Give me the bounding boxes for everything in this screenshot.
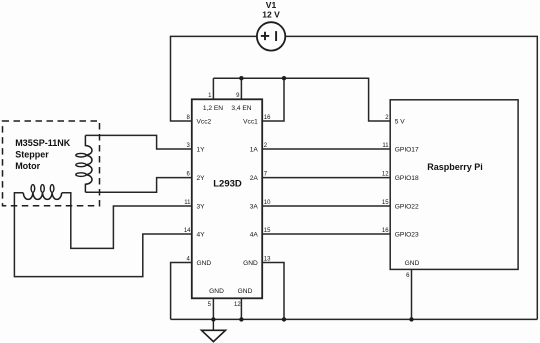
svg-text:15: 15 xyxy=(382,200,389,206)
wire L293D pin 9 riser to EN rail xyxy=(240,78,242,99)
inductor coil L2 (horizontal winding) xyxy=(23,185,61,200)
svg-text:M35SP-11NK: M35SP-11NK xyxy=(15,138,71,148)
svg-text:1,2 EN: 1,2 EN xyxy=(203,105,223,112)
svg-text:12: 12 xyxy=(382,172,389,178)
wire L293D pin 16 Vcc1 riser to EN rail xyxy=(262,78,284,121)
svg-text:12: 12 xyxy=(234,302,241,308)
voltage source V1 xyxy=(257,22,285,50)
node pin9/EN rail xyxy=(239,76,243,80)
svg-text:6: 6 xyxy=(186,172,190,178)
svg-text:GND: GND xyxy=(209,288,224,295)
wire 4A to GPIO23 xyxy=(262,233,390,235)
svg-text:4Y: 4Y xyxy=(197,232,206,239)
svg-text:12 V: 12 V xyxy=(262,10,280,20)
op-amp U1: L293D IC body xyxy=(192,99,262,298)
wire top rail left: V1 plus to Vcc2 pin 8 xyxy=(171,36,257,121)
wire coil L1 bottom to 2Y pin 6 xyxy=(85,178,191,193)
svg-text:3: 3 xyxy=(186,143,190,149)
svg-text:1: 1 xyxy=(208,93,212,99)
svg-text:Vcc2: Vcc2 xyxy=(197,119,212,126)
Raspberry Pi body xyxy=(390,100,518,270)
wire L293D pin 12 GND to rail xyxy=(240,298,242,319)
svg-text:13: 13 xyxy=(264,257,271,263)
svg-text:16: 16 xyxy=(382,228,389,234)
svg-text:Raspberry Pi: Raspberry Pi xyxy=(427,162,483,172)
svg-text:8: 8 xyxy=(186,115,190,121)
svg-text:GPIO17: GPIO17 xyxy=(395,147,419,154)
svg-text:10: 10 xyxy=(264,200,271,206)
wire coil L2 right to 3Y pin 11 xyxy=(62,193,192,249)
wire L293D pin 5 GND to rail xyxy=(212,298,214,319)
node RPi GND/rail xyxy=(409,317,413,321)
svg-text:GND: GND xyxy=(405,260,420,267)
svg-text:4: 4 xyxy=(186,257,190,263)
wire bottom ground rail xyxy=(171,318,538,320)
wire coil L1 top to 1Y pin 3 xyxy=(85,135,191,149)
wire Raspberry Pi pin 6 GND to rail xyxy=(411,269,413,319)
node pin13/rail xyxy=(282,317,286,321)
svg-text:Vcc1: Vcc1 xyxy=(243,119,258,126)
wire EN rail to Raspberry Pi 5V pin 2 xyxy=(213,78,390,121)
svg-text:2A: 2A xyxy=(250,175,259,182)
svg-text:9: 9 xyxy=(236,93,240,99)
svg-text:1A: 1A xyxy=(250,147,259,154)
svg-text:11: 11 xyxy=(382,143,389,149)
node pin12/rail xyxy=(239,317,243,321)
wire top rail right: V1 minus to right drop xyxy=(286,36,538,319)
svg-text:15: 15 xyxy=(264,228,271,234)
wire 2A to GPIO18 xyxy=(262,177,390,179)
svg-text:1Y: 1Y xyxy=(197,147,206,154)
wire L293D pin 13 GND to rail xyxy=(262,263,284,320)
svg-text:L293D: L293D xyxy=(213,179,242,190)
svg-text:Stepper: Stepper xyxy=(15,150,49,160)
svg-text:4A: 4A xyxy=(250,232,259,239)
wire 1A to GPIO17 xyxy=(262,148,390,150)
svg-text:2Y: 2Y xyxy=(197,175,206,182)
svg-text:GND: GND xyxy=(238,288,253,295)
node Vcc1 riser/EN rail xyxy=(282,76,286,80)
svg-text:GND: GND xyxy=(243,260,258,267)
svg-text:3A: 3A xyxy=(250,204,259,211)
svg-text:11: 11 xyxy=(184,200,191,206)
svg-text:5: 5 xyxy=(208,302,212,308)
svg-text:GND: GND xyxy=(197,260,212,267)
wire L293D pin 1 riser to EN rail xyxy=(212,78,214,99)
svg-text:3Y: 3Y xyxy=(197,204,206,211)
svg-text:6: 6 xyxy=(406,273,410,279)
svg-text:14: 14 xyxy=(184,228,191,234)
svg-text:2: 2 xyxy=(264,143,268,149)
wire 3A to GPIO22 xyxy=(262,205,390,207)
svg-text:16: 16 xyxy=(264,115,271,121)
svg-text:GPIO23: GPIO23 xyxy=(395,232,419,239)
stepper motor dashed enclosure xyxy=(3,121,100,206)
inductor coil L1 (vertical winding) xyxy=(76,135,92,192)
svg-text:Motor: Motor xyxy=(15,161,40,171)
node ground/pin5 xyxy=(211,317,215,321)
svg-text:7: 7 xyxy=(264,172,268,178)
svg-text:GPIO18: GPIO18 xyxy=(395,175,419,182)
svg-text:2: 2 xyxy=(385,115,389,121)
svg-text:V1: V1 xyxy=(266,0,277,10)
svg-text:5 V: 5 V xyxy=(395,119,405,126)
svg-text:3,4 EN: 3,4 EN xyxy=(231,105,251,112)
svg-text:GPIO22: GPIO22 xyxy=(395,204,419,211)
wire coil L2 left to 4Y pin 14 xyxy=(14,193,191,277)
wire L293D pin 4 GND to rail xyxy=(171,263,192,320)
ground xyxy=(202,319,226,341)
